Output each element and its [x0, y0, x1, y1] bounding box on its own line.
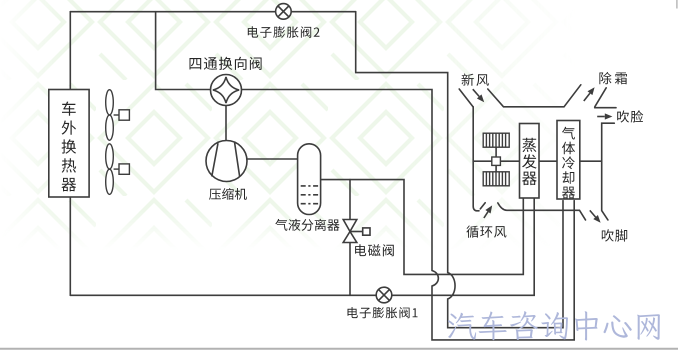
- label 气体冷却器 (vertical): [562, 127, 575, 199]
- label 吹脸: [617, 110, 643, 122]
- defrost arrow: [584, 93, 590, 101]
- fresh air inlet flap: [459, 89, 473, 107]
- fan 1: [106, 90, 114, 115]
- evaporator 蒸发器: [520, 124, 540, 199]
- label 车外换热器 (vertical): [62, 102, 77, 192]
- wire four-way valve to compressor: [225, 106, 227, 141]
- duct left wall: [473, 107, 479, 211]
- wire left riser: [69, 12, 71, 90]
- label 压缩机: [209, 188, 247, 200]
- site watermark 汽车咨询中心网: [448, 311, 660, 340]
- solenoid valve 电磁阀: [343, 220, 357, 243]
- label 电磁阀: [355, 244, 394, 256]
- wire to four-way valve left port: [156, 12, 211, 90]
- label 循环风: [466, 226, 506, 238]
- recirculation arrow: [484, 212, 488, 218]
- face vent arrow: [597, 116, 605, 118]
- label 电子膨胀阀2: [248, 26, 320, 38]
- label 新风: [462, 74, 489, 86]
- foot vent arrow: [590, 210, 596, 217]
- fan 2: [106, 144, 114, 169]
- wire top line: [70, 11, 355, 13]
- heater square: [492, 157, 501, 165]
- label 气液分离器: [275, 219, 339, 231]
- label 吹脚: [602, 229, 627, 241]
- gas-liquid separator 气液分离器: [298, 144, 321, 215]
- recirculation flap: [480, 203, 485, 209]
- defrost flap: [595, 88, 606, 107]
- wire four-way valve right to gas cooler (with crossing hop): [242, 90, 575, 340]
- right edge artifact line: [676, 0, 678, 9]
- label 四通换向阀: [190, 57, 262, 70]
- fresh air arrow: [473, 89, 479, 96]
- bottom gray line: [0, 348, 678, 350]
- gas cooler 气体冷却器: [557, 121, 580, 200]
- four-way reversing valve 四通换向阀: [211, 75, 242, 106]
- wire separator to evaporator inlet: [321, 180, 524, 275]
- heater-square stubs: [495, 147, 497, 172]
- label 蒸发器 (vertical): [522, 138, 537, 185]
- evaporator to gas cooler link: [539, 160, 602, 162]
- electronic expansion valve 1: [376, 287, 392, 303]
- wire left drop: [69, 197, 71, 295]
- face vent lip: [595, 107, 616, 109]
- heater feed line: [473, 160, 519, 162]
- compressor 压缩机: [206, 141, 247, 182]
- wire compressor to separator: [247, 158, 298, 160]
- electronic expansion valve 2: [276, 4, 292, 20]
- duct right wall + foot flap: [602, 123, 615, 220]
- duct bottom wall + foot outlet slant: [498, 203, 586, 220]
- PTC heater upper: [483, 133, 509, 147]
- label 电子膨胀阀1: [348, 307, 418, 318]
- PTC heater lower: [483, 172, 509, 186]
- wire solenoid valve branch: [349, 180, 351, 296]
- duct top wall: [488, 85, 581, 107]
- label 除霜: [599, 72, 627, 84]
- wire bottom main line (evaporator outlet to outdoor HX): [70, 199, 534, 295]
- wire top line to gas cooler (with crossing hop): [356, 12, 563, 328]
- outdoor heat exchanger 车外换热器: [49, 90, 89, 198]
